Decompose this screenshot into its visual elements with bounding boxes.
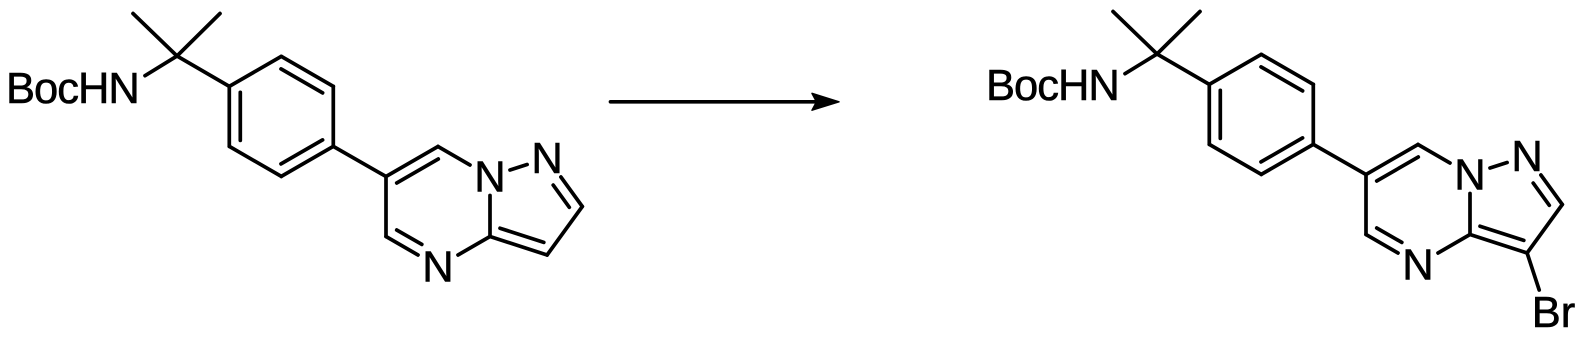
left molecule pyrimidine bond C6=C7 inner line [397,159,439,183]
left molecule pyrimidine bond N4=C5 inner line [397,230,422,244]
svg-text:BocHN: BocHN [986,62,1119,110]
right molecule pyrimidine bond C3a-N4 [1438,235,1470,254]
left molecule phenyl bond C5-C6 [229,146,281,176]
right molecule phenyl bond C2-C3 (double) [1261,54,1313,84]
left molecule pyrimidine bond C3a-N4 [458,237,490,256]
left molecule pyrazole bond N2=C2 inner line [553,185,569,207]
left molecule phenyl bond C4-C5 inner line [281,140,323,164]
left molecule phenyl bond C4-C5 (double) [281,146,333,176]
left molecule pyrazole bond C2-C3 [547,207,582,256]
svg-text:N: N [531,135,562,183]
svg-text:BocHN: BocHN [6,65,139,113]
right molecule methyl bond CH3 (left) [1113,12,1157,55]
right molecule pyrazole bond N2=C2 inner line [1533,183,1549,205]
left molecule pyrimidine bond N1-C3a (fused) [488,196,492,237]
right molecule phenyl bond C1-C2 [1209,54,1261,84]
left molecule pyrimidine bond C7-N1 [438,147,470,166]
left molecule phenyl bond C6-C1 (double) [227,86,231,146]
svg-text:N: N [1402,242,1433,290]
left molecule pyrazole bond C3=C3a inner line [500,228,544,242]
right molecule pyrazole bond C3=C3a inner line [1480,226,1524,240]
left molecule phenyl bond C2-C3 inner line [281,69,323,93]
right molecule pyrimidine bond N1-C3a (fused) [1468,194,1472,235]
right molecule phenyl bond C4-C5 inner line [1261,138,1303,162]
left molecule phenyl bond C2-C3 (double) [281,56,333,86]
svg-text:N: N [474,154,505,202]
left molecule pyrazole bond N2=C2 (double) [561,177,582,207]
right molecule phenyl bond C6-C1 (double) [1207,84,1211,144]
right molecule pyrimidine bond C7-N1 [1418,145,1450,164]
svg-text:N: N [1511,133,1542,181]
left molecule bond phenyl-C6 pyrazolopyrimidine [333,146,386,176]
left molecule pyrazole bond C3=C3a (double) [490,237,547,256]
left molecule pyrimidine bond N4=C5 (double) [386,237,418,256]
right molecule pyrimidine bond C6=C7 inner line [1377,157,1419,181]
right molecule pyrimidine bond C6=C7 (double) [1366,145,1418,175]
right molecule bond N-C(CH3)2 [1125,54,1157,74]
right molecule phenyl bond C6-C1 inner line [1218,90,1222,138]
left molecule bond N-C(CH3)2 [145,56,177,76]
right molecule phenyl bond C2-C3 inner line [1261,67,1303,91]
svg-text:Br: Br [1532,289,1576,335]
left molecule pyrazole bond N1-N2 [510,165,527,171]
right molecule pyrazole bond C2-C3 [1527,205,1562,254]
left molecule bond C(CH3)2-phenyl [177,56,229,86]
reaction arrow head [812,93,839,110]
right molecule pyrimidine bond N4=C5 inner line [1377,228,1402,242]
svg-text:N: N [1454,152,1485,200]
left molecule methyl bond CH3 (right) [177,14,220,57]
right molecule pyrimidine bond N4=C5 (double) [1366,235,1398,254]
left molecule phenyl bond C3-C4 [331,86,335,146]
right molecule phenyl bond C3-C4 [1311,84,1315,144]
right molecule phenyl bond C5-C6 [1209,144,1261,174]
right molecule bond C3-Br [1527,253,1539,290]
svg-text:N: N [422,244,453,292]
right molecule bond phenyl-C6 pyrazolopyrimidine [1313,144,1366,174]
right molecule pyrimidine bond C5-C6 [1364,175,1368,235]
left molecule pyrimidine bond C6=C7 (double) [386,147,438,177]
right molecule phenyl bond C4-C5 (double) [1261,144,1313,174]
right molecule bond C(CH3)2-phenyl [1157,54,1209,84]
left molecule methyl bond CH3 (left) [133,14,177,57]
left molecule phenyl bond C1-C2 [229,56,281,86]
right molecule pyrazole bond C3=C3a (double) [1470,235,1527,254]
right molecule pyrazole bond N2=C2 (double) [1541,175,1562,205]
right molecule methyl bond CH3 (right) [1157,12,1200,55]
reaction arrow shaft [611,100,825,104]
left molecule phenyl bond C6-C1 inner line [238,92,242,140]
left molecule pyrimidine bond C5-C6 [384,177,388,237]
right molecule pyrazole bond N1-N2 [1490,163,1507,169]
